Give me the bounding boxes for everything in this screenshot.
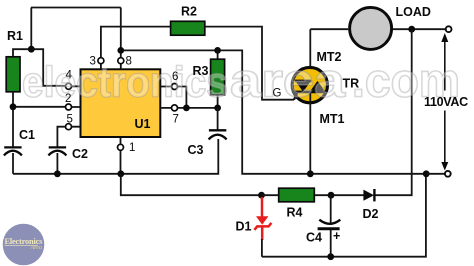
resistor R4 [279,188,315,202]
wire LOAD right to terminal [393,28,446,30]
node pin2 branch [10,103,17,110]
node C2 on rail [54,170,61,177]
node bottom-right on AC rail [423,170,430,177]
wire D1 bottom to bottom rail [262,174,426,257]
wire C2 bottom to rail [56,153,58,174]
svg-text:MT1: MT1 [320,112,345,126]
svg-text:C2: C2 [72,147,88,161]
diode D2 [363,189,374,201]
capacitor C1 [4,147,22,155]
node R3 top [214,47,221,54]
wire R1 bottom to C1 top through pin2 node [12,92,14,148]
svg-text:R1: R1 [7,29,23,43]
resistor R2 [171,21,205,35]
wire MT1 down to rail [309,92,311,174]
wire to bottom terminal [426,173,445,175]
resistor R3 [211,59,225,95]
wire R3 stubs [217,50,219,108]
wire R4 leads [262,194,332,196]
pin 7 circle [172,105,178,111]
node MT1 on rail [307,170,314,177]
resistor R1 [6,57,20,92]
svg-text:Area: Area [30,245,42,251]
wire hot line down to D2 [375,29,412,195]
wire C4 bottom to rail [330,230,332,257]
wire junction to R1 top [13,49,31,57]
node LOAD output [408,26,415,33]
pin 4 circle [66,83,72,89]
wire bottom rail left (C1 to C3 riser) [13,139,218,174]
pin 3 circle [98,58,104,64]
svg-text:8: 8 [126,56,132,68]
wire C1 bottom to ground rail [12,153,14,174]
svg-text:TR: TR [343,77,360,91]
capacitor C2 [48,147,66,155]
svg-text:2: 2 [65,93,71,105]
watermark electronicsarea.com [22,54,460,107]
svg-text:1: 1 [129,142,135,154]
capacitor C3 [209,130,227,139]
pin 1 circle [118,144,124,150]
node R4/C4/D2 [328,192,335,199]
node junction above R1 [28,46,35,53]
wire junction to pin 4 [31,49,65,86]
node R3 bottom [214,105,221,112]
triac TR [292,67,327,102]
svg-text:C3: C3 [188,143,204,157]
node D1 top [258,192,265,199]
wire top horizontal from R1 branch to pin8 drop [31,7,121,9]
svg-text:6: 6 [172,71,178,83]
wire rail drop to D1 row [121,174,262,195]
svg-text:C1: C1 [19,128,35,142]
svg-text:R2: R2 [181,5,197,19]
svg-text:D1: D1 [236,220,252,234]
wire pin 1 to rail [120,138,122,174]
wire D2 anode to R4 node [331,194,364,196]
zener diode D1 [254,197,271,240]
logo Electronics Area [3,224,45,266]
pin stubs around U1 [72,64,172,127]
svg-text:LOAD: LOAD [396,5,431,19]
U1 body [81,69,161,137]
wire pin 3 up and right to R2 [101,27,171,58]
svg-text:+: + [333,229,340,243]
svg-text:C4: C4 [306,231,322,245]
node pin1 on rail [117,170,124,177]
wire pin 6 jog down to pin7 row [178,87,187,108]
wire pin2 node to pin 2 [13,106,66,108]
wire C4 top lead [330,195,332,225]
wire R2 right to triac gate [205,27,294,100]
svg-text:D2: D2 [363,207,379,221]
wire R3 bottom to C3 [217,108,219,130]
svg-text:G: G [273,88,282,100]
svg-text:R4: R4 [287,206,303,220]
wire pin 7 row to R3 bottom [178,107,218,109]
node C4 on bottom rail [327,253,334,260]
svg-text:MT2: MT2 [317,50,342,64]
node pin8 junction [117,47,124,54]
svg-text:4: 4 [66,70,73,82]
svg-text:7: 7 [173,114,179,126]
node pin6/7 join [183,105,190,112]
pin 5 circle [66,124,72,130]
110VAC measurement arrow [441,33,448,171]
svg-text:R3: R3 [193,64,209,78]
pin 2 circle [66,104,72,110]
terminal bottom right [445,171,451,177]
wire LOAD left / MT2 drop [310,29,348,81]
svg-text:3: 3 [90,56,96,68]
svg-text:110VAC: 110VAC [424,95,468,109]
wire pin8 top junction to R3 and down right side rail [121,8,426,174]
wire vertical down to R1 junction [30,8,32,50]
svg-text:U1: U1 [135,117,151,131]
capacitor C4 electrolytic [318,220,341,243]
pin 8 circle [118,58,124,64]
svg-text:5: 5 [67,114,73,126]
terminal top right [446,26,452,32]
load LOAD [350,7,392,49]
pin 6 circle [172,84,178,90]
wire pin 5 to C2 top [57,127,65,148]
